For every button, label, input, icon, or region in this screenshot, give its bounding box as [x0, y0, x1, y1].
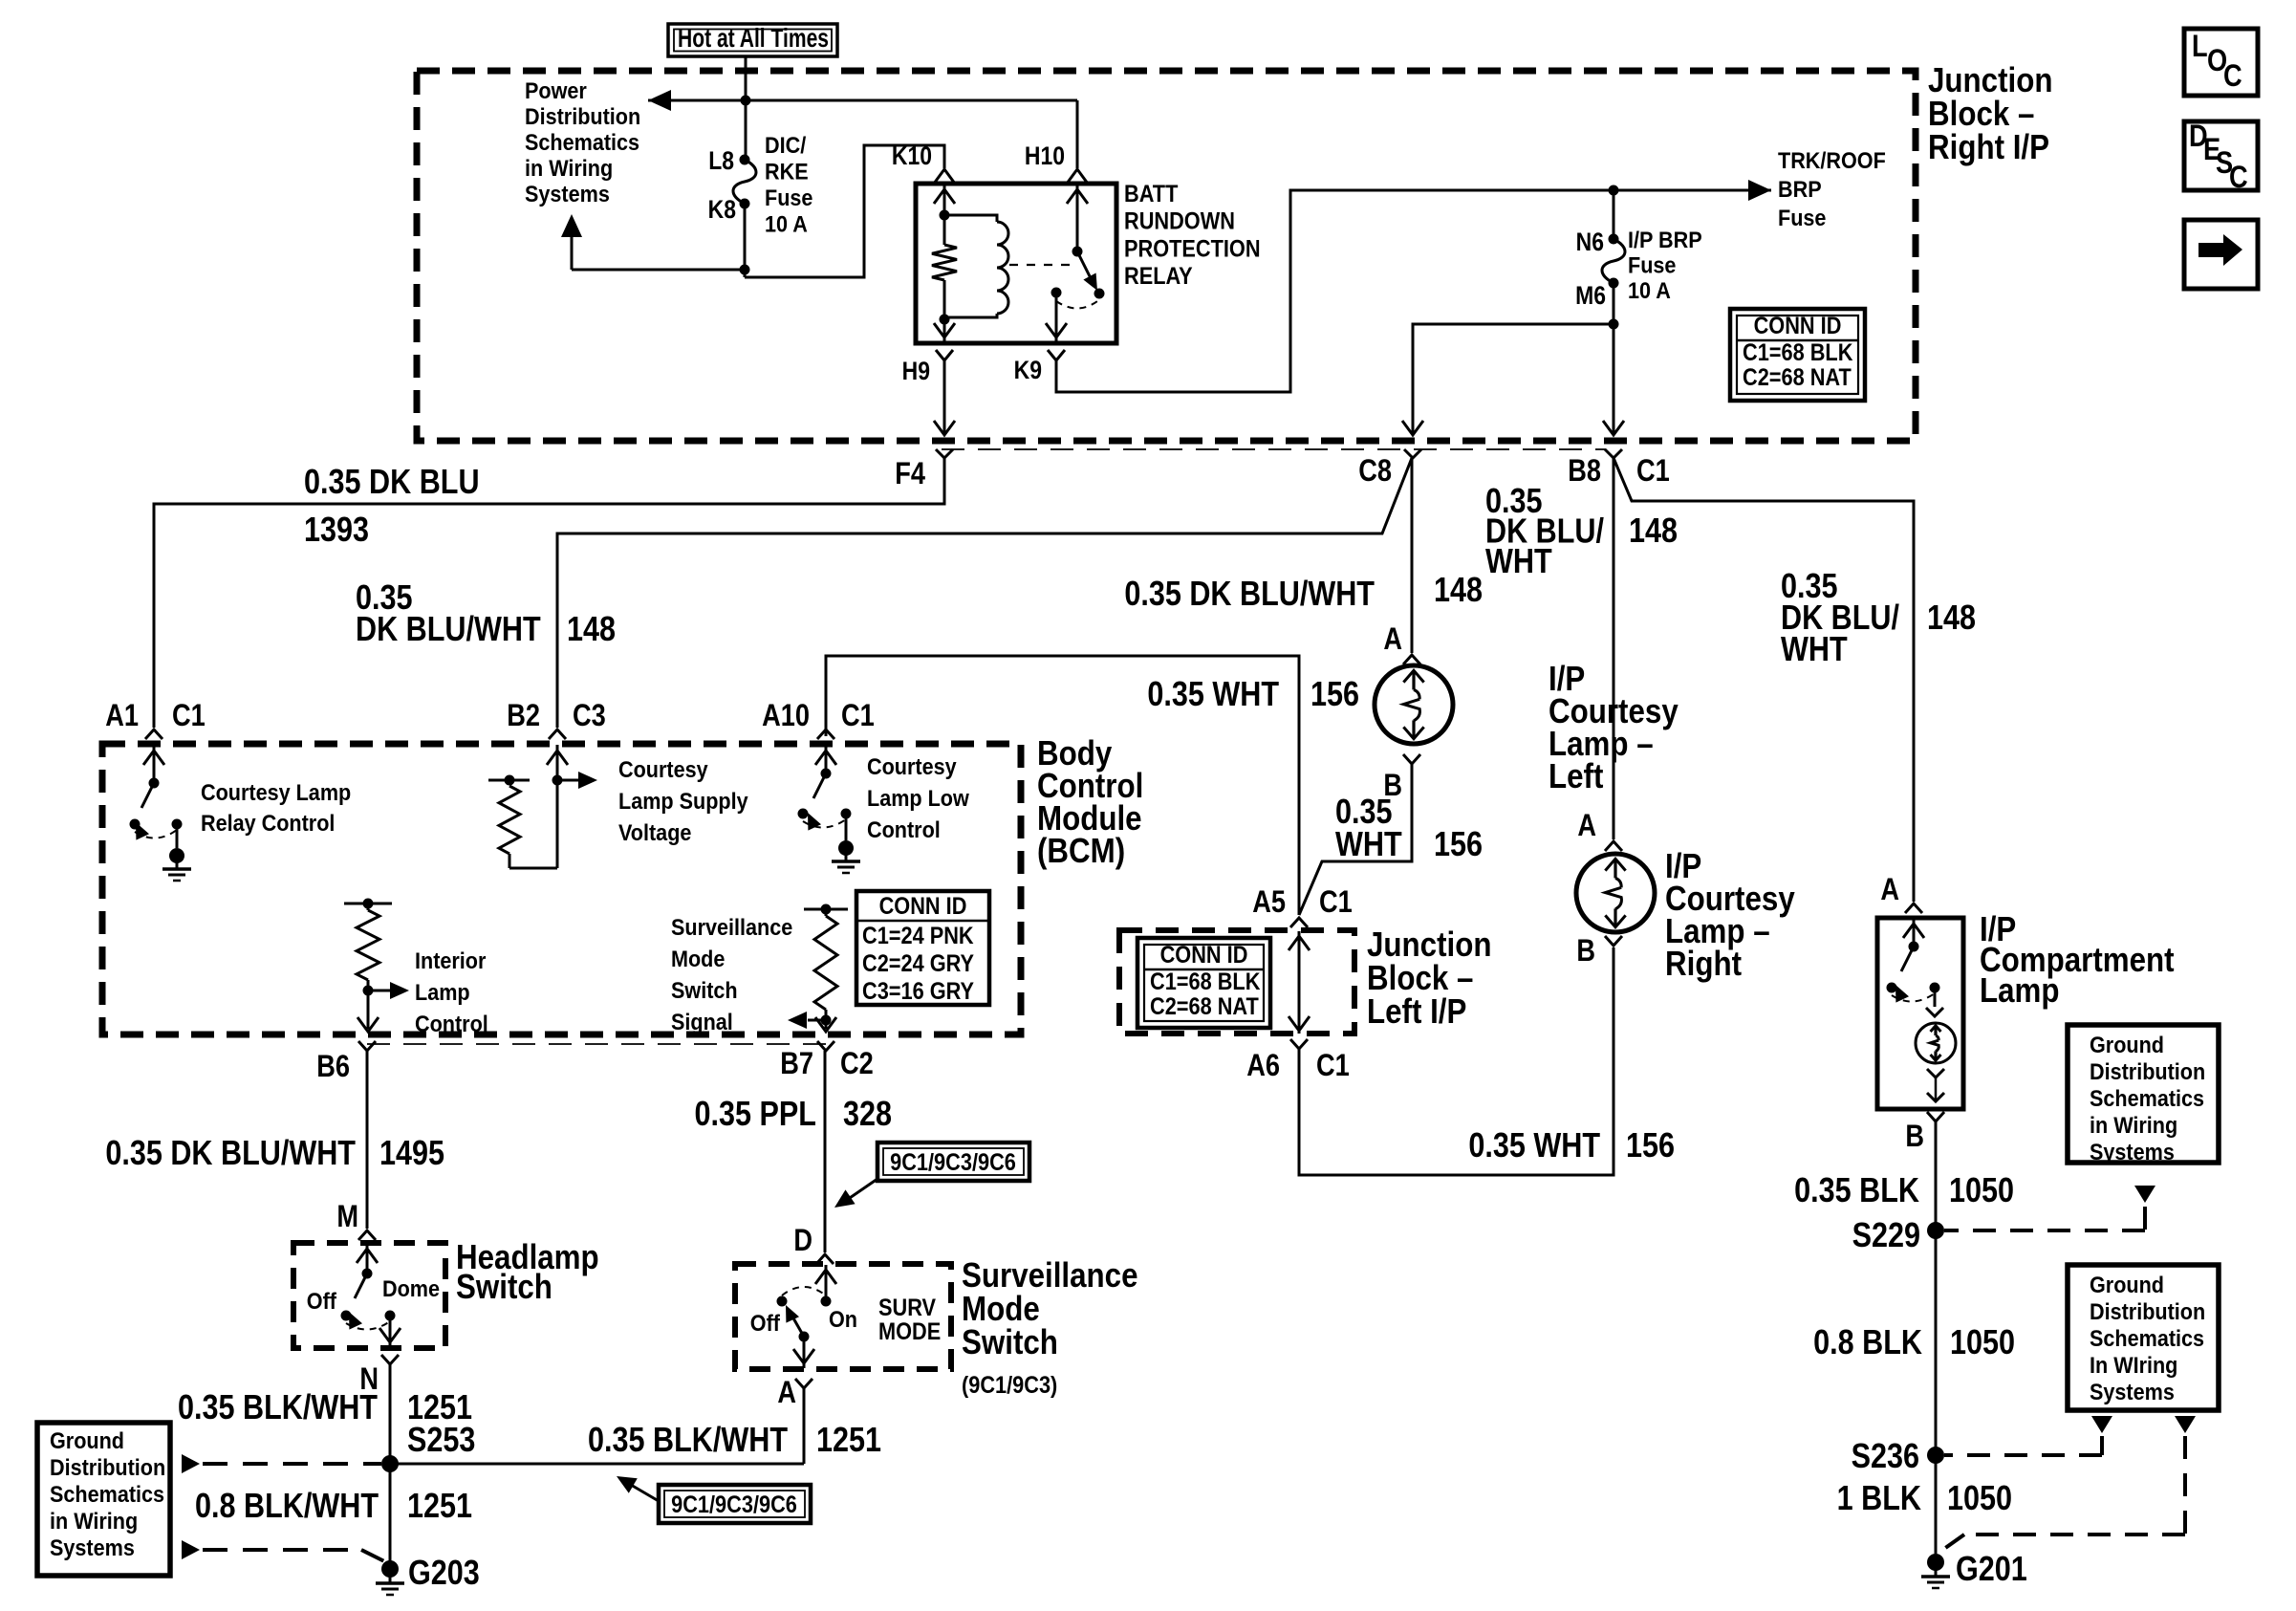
node junction dot hot bus	[741, 96, 751, 106]
pin K10	[892, 142, 932, 170]
svg-text:C1=24 PNK: C1=24 PNK	[862, 923, 974, 949]
svg-text:WHT: WHT	[1781, 631, 1848, 669]
wire A6 to lamp right B 0.35 WHT 156	[1299, 947, 1614, 1175]
svg-text:CONN ID: CONN ID	[1160, 942, 1248, 969]
svg-text:B: B	[1576, 934, 1595, 969]
label On	[829, 1306, 857, 1332]
svg-text:B8: B8	[1568, 454, 1601, 489]
ground G201	[1921, 1554, 1950, 1588]
wire N to S253 0.35 BLK/WHT 1251	[389, 1364, 392, 1464]
svg-text:156: 156	[1626, 1127, 1675, 1165]
svg-text:Distribution: Distribution	[525, 103, 640, 129]
svg-text:0.35 BLK/WHT: 0.35 BLK/WHT	[178, 1389, 379, 1427]
label 0.35 DK BLU/WHT single	[1124, 576, 1375, 614]
thin dashed connector boundary BCM	[367, 1043, 826, 1045]
connector M chevron	[358, 1230, 376, 1240]
pin A10	[762, 699, 810, 733]
label 148 at B8	[1629, 512, 1678, 551]
label 0.35 DK BLU/WHT stacked	[356, 579, 541, 649]
label Off headlamp	[307, 1288, 337, 1314]
svg-text:Left I/P: Left I/P	[1367, 992, 1466, 1032]
relay switch arm	[1077, 251, 1105, 299]
arrow courtesy lamp supply	[557, 772, 597, 789]
lamp right name	[1665, 847, 1795, 984]
svg-text:1050: 1050	[1950, 1324, 2015, 1362]
svg-text:Systems: Systems	[2090, 1379, 2175, 1404]
svg-text:0.8 BLK/WHT: 0.8 BLK/WHT	[195, 1488, 379, 1526]
callout 9C1/9C3/9C6 upper	[877, 1143, 1029, 1181]
svg-text:Switch: Switch	[671, 977, 738, 1003]
pin M6	[1575, 281, 1606, 310]
node Hot at All Times	[668, 23, 837, 56]
connector A5 chevron	[1290, 918, 1308, 927]
ground distribution text right upper	[2090, 1032, 2205, 1165]
pin C1 bcm a1	[172, 699, 206, 733]
svg-text:C1=68 BLK: C1=68 BLK	[1743, 339, 1852, 366]
svg-text:148: 148	[1927, 599, 1976, 638]
label S229	[1852, 1217, 1920, 1255]
wire B7 to D 0.35 PPL 328	[824, 1051, 827, 1252]
wire B compartment to S229 0.35 BLK 1050	[1935, 1121, 1938, 1230]
fuse I/P BRP 10 A	[1602, 234, 1625, 289]
wire K8 branch to power distribution	[572, 237, 745, 270]
conn id table junction block right	[1730, 309, 1865, 401]
svg-text:RUNDOWN: RUNDOWN	[1124, 207, 1235, 234]
wire surveillance to B7 arrow	[815, 1017, 836, 1032]
surveillance mode switch name	[962, 1256, 1138, 1398]
connector A1 chevron	[145, 729, 162, 739]
svg-text:BATT: BATT	[1124, 181, 1179, 207]
svg-text:Ground: Ground	[2090, 1032, 2164, 1057]
svg-text:148: 148	[1629, 512, 1678, 551]
arrow up to power distribution	[561, 214, 582, 237]
pin B8	[1568, 454, 1601, 489]
pin B lamp left	[1383, 769, 1402, 803]
connector A6 chevron	[1290, 1039, 1308, 1049]
svg-text:Surveillance: Surveillance	[671, 914, 792, 940]
ground distribution text left	[50, 1427, 165, 1560]
wire C8 down to lamp left A	[1411, 458, 1414, 653]
wire interior lamp to B6 arrow	[357, 1017, 379, 1032]
svg-text:1393: 1393	[304, 512, 369, 550]
pin A lamp right	[1577, 809, 1596, 843]
label Off surveillance	[750, 1310, 781, 1336]
connector F4 chevron	[936, 449, 953, 458]
pin A1	[105, 699, 139, 733]
relay batt rundown protection box	[916, 184, 1116, 343]
pin B6	[316, 1050, 350, 1084]
svg-text:in Wiring: in Wiring	[2090, 1112, 2177, 1138]
connector N chevron	[381, 1355, 399, 1364]
svg-text:I/P BRP: I/P BRP	[1628, 227, 1702, 252]
svg-text:BRP: BRP	[1778, 176, 1822, 202]
wire tap down to fuse N6	[1613, 190, 1615, 239]
svg-text:A: A	[777, 1376, 796, 1410]
label 0.8 BLK 1050	[1813, 1324, 2015, 1362]
svg-text:Lamp: Lamp	[415, 979, 470, 1005]
dashed link G201 to ground box lower right right arrow	[1941, 1416, 2196, 1551]
svg-text:Mode: Mode	[671, 946, 725, 971]
pin A compartment lamp	[1880, 873, 1899, 907]
svg-text:Ground: Ground	[50, 1427, 124, 1453]
node splice S236	[1927, 1447, 1944, 1464]
svg-text:10 A: 10 A	[765, 210, 808, 236]
connector H9 chevron	[936, 350, 953, 360]
wire H9 to F4	[934, 360, 955, 435]
svg-text:in Wiring: in Wiring	[525, 155, 613, 181]
svg-text:Fuse: Fuse	[765, 185, 812, 210]
inductor relay coil	[944, 215, 1008, 317]
label 148	[567, 611, 616, 649]
node relay coil bottom dot	[940, 315, 950, 325]
pin B2	[507, 699, 540, 733]
svg-text:S236: S236	[1852, 1438, 1919, 1476]
relay H10 leg with arrow	[1067, 184, 1088, 251]
svg-text:F4: F4	[895, 457, 925, 491]
svg-text:C1: C1	[1636, 454, 1670, 489]
pin H10	[1025, 142, 1065, 170]
wire K8 to relay K10	[745, 145, 944, 277]
fuse DIC/RKE 10 A	[733, 155, 756, 209]
svg-text:0.35 BLK/WHT: 0.35 BLK/WHT	[588, 1422, 789, 1460]
svg-text:D: D	[793, 1224, 812, 1258]
callout 9C1/9C3/9C6 lower	[659, 1485, 811, 1523]
svg-text:Left: Left	[1549, 757, 1603, 796]
conn id table BCM	[856, 891, 989, 1005]
node relay switch pivot	[1072, 247, 1083, 257]
svg-text:Systems: Systems	[2090, 1139, 2175, 1165]
label 1 BLK 1050	[1837, 1480, 2012, 1518]
pin N	[359, 1362, 379, 1397]
ip compartment lamp name	[1980, 910, 2175, 1011]
relay H9 leg with arrow	[934, 319, 955, 343]
label 0.35 DK BLU/WHT 1495	[105, 1135, 444, 1173]
connector A surveillance chevron	[795, 1379, 812, 1388]
ground distribution schematics box right lower	[2068, 1265, 2219, 1410]
label 0.35 PPL 328	[694, 1096, 892, 1134]
label 1393	[304, 512, 369, 550]
svg-text:K10: K10	[892, 142, 932, 170]
relay actuation dashed link	[1009, 264, 1072, 266]
svg-text:Schematics: Schematics	[525, 129, 639, 155]
courtesy lamp supply voltage note	[618, 756, 748, 845]
svg-text:B7: B7	[780, 1047, 813, 1081]
label S253	[407, 1422, 475, 1460]
svg-text:9C1/9C3/9C6: 9C1/9C3/9C6	[671, 1491, 797, 1518]
pin A lamp left	[1383, 622, 1402, 657]
svg-text:C2=68 NAT: C2=68 NAT	[1743, 364, 1852, 391]
svg-text:0.35 WHT: 0.35 WHT	[1468, 1127, 1600, 1165]
wire surveillance A to S253	[803, 1388, 806, 1464]
TRK/ROOF BRP fuse note	[1778, 147, 1886, 230]
arrow surveillance mode switch signal	[788, 1012, 826, 1029]
relay K9 leg with arrow	[1046, 293, 1067, 343]
thin dashed connector boundary right	[942, 448, 1606, 450]
switch surveillance mode	[777, 1265, 837, 1368]
pin C8	[1358, 454, 1392, 489]
svg-text:0.35 DK BLU: 0.35 DK BLU	[304, 464, 480, 502]
wire lamp left B to A5	[1299, 764, 1412, 915]
pin H9	[902, 357, 930, 385]
svg-text:H10: H10	[1025, 142, 1065, 170]
svg-text:Fuse: Fuse	[1778, 205, 1826, 230]
connector B lamp right chevron	[1605, 936, 1622, 946]
surveillance mode switch signal note	[671, 914, 792, 1034]
connector B7 chevron	[817, 1041, 834, 1051]
lamp I/P courtesy left	[1375, 665, 1453, 744]
junction block left name	[1367, 925, 1491, 1032]
svg-text:148: 148	[1434, 572, 1483, 610]
ground distribution text right lower	[2090, 1272, 2205, 1404]
wire S229 to S236 0.8 BLK 1050	[1935, 1230, 1938, 1455]
surveillance mode switch box	[735, 1264, 951, 1369]
svg-text:WHT: WHT	[1335, 826, 1402, 864]
label 0.35 BLK 1050	[1794, 1172, 2014, 1210]
switch headlamp	[341, 1244, 401, 1347]
arrow interior lamp control	[368, 982, 409, 999]
svg-text:Signal: Signal	[671, 1009, 733, 1034]
dashed link S229 to ground box upper right	[1944, 1186, 2155, 1230]
label 0.35 WHT a	[1147, 676, 1279, 714]
callout arrow upper	[834, 1179, 877, 1208]
compartment lamp exit arrows	[1927, 1069, 1944, 1101]
pin C3	[573, 699, 606, 733]
label G201	[1956, 1551, 2027, 1589]
svg-text:In WIring: In WIring	[2090, 1352, 2177, 1378]
connector K10 chevron	[934, 169, 955, 184]
svg-text:Schematics: Schematics	[50, 1481, 164, 1507]
svg-text:L: L	[2192, 30, 2208, 64]
svg-text:DIC/: DIC/	[765, 132, 807, 158]
pin A5	[1252, 885, 1286, 920]
switch courtesy lamp relay control	[130, 745, 183, 848]
svg-text:C1: C1	[172, 699, 206, 733]
svg-text:C2=68 NAT: C2=68 NAT	[1150, 993, 1259, 1020]
svg-text:G201: G201	[1956, 1551, 2027, 1589]
label 0.35 WHT b	[1468, 1127, 1600, 1165]
wire B6 to M 0.35 DK BLU/WHT 1495	[366, 1051, 369, 1229]
svg-text:C1: C1	[1316, 1049, 1350, 1083]
svg-text:Courtesy: Courtesy	[867, 753, 957, 779]
svg-text:0.35 WHT: 0.35 WHT	[1147, 676, 1279, 714]
label 0.35 BLK/WHT 1251 left	[178, 1389, 472, 1427]
svg-text:0.35 DK BLU/WHT: 0.35 DK BLU/WHT	[1124, 576, 1375, 614]
wire B8 down to lamp right A	[1613, 458, 1615, 839]
svg-text:A: A	[1383, 622, 1402, 657]
fuse I/P BRP value label	[1628, 227, 1702, 303]
svg-text:Courtesy: Courtesy	[618, 756, 708, 782]
arrow to TRK/ROOF BRP fuse	[1748, 180, 1771, 201]
node dot IP BRP tap	[1609, 185, 1619, 196]
svg-text:C: C	[2223, 59, 2242, 94]
svg-text:M: M	[336, 1200, 358, 1234]
svg-text:L8: L8	[708, 146, 734, 175]
svg-text:On: On	[829, 1306, 857, 1332]
svg-text:in Wiring: in Wiring	[50, 1508, 138, 1534]
svg-text:328: 328	[843, 1096, 892, 1134]
svg-text:M6: M6	[1575, 281, 1606, 310]
pin K9	[1014, 356, 1042, 384]
pin L8	[708, 146, 734, 175]
wire S253 to G203 0.8 BLK/WHT 1251	[389, 1464, 392, 1561]
connector A lamp left chevron	[1403, 655, 1420, 664]
pin C1 a5	[1319, 885, 1353, 920]
arrow to power distribution left	[648, 90, 671, 111]
resistor interior lamp control	[344, 899, 392, 1030]
svg-text:Control: Control	[867, 816, 941, 842]
svg-text:TRK/ROOF: TRK/ROOF	[1778, 147, 1886, 173]
wire S236 to G201 1 BLK 1050	[1935, 1455, 1938, 1554]
relay K10 leg with arrow	[934, 184, 955, 215]
pin N6	[1576, 228, 1604, 256]
label 148 b	[1434, 572, 1483, 610]
node relay coil top dot	[940, 210, 950, 221]
label 148 c	[1927, 599, 1976, 638]
next-page arrow box	[2184, 220, 2258, 289]
label 156 left	[1434, 826, 1483, 864]
svg-text:10 A: 10 A	[1628, 277, 1671, 303]
svg-text:Dome: Dome	[382, 1275, 440, 1301]
svg-text:MODE: MODE	[878, 1318, 941, 1345]
wire S253 to surveillance A 0.35 BLK/WHT 1251	[390, 1463, 804, 1466]
svg-text:A1: A1	[105, 699, 139, 733]
wire F4 to BCM A1 0.35 DK BLU 1393	[154, 458, 944, 728]
svg-text:CONN ID: CONN ID	[1754, 313, 1842, 339]
svg-text:Lamp Low: Lamp Low	[867, 785, 969, 811]
svg-text:156: 156	[1310, 676, 1359, 714]
connector B8 chevron	[1605, 449, 1622, 458]
svg-text:Systems: Systems	[50, 1535, 135, 1560]
svg-text:156: 156	[1434, 826, 1483, 864]
svg-text:Lamp Supply: Lamp Supply	[618, 788, 748, 814]
svg-text:1 BLK: 1 BLK	[1837, 1480, 1921, 1518]
wire BCM A10 to junction left A5 0.35 WHT 156	[826, 656, 1299, 915]
svg-text:1495: 1495	[379, 1135, 444, 1173]
connector B lamp left chevron	[1403, 754, 1420, 764]
svg-text:Control: Control	[415, 1011, 488, 1036]
wire through junction block left	[1289, 931, 1310, 1034]
pin M	[336, 1200, 358, 1234]
lamp compartment bulb	[1916, 1023, 1956, 1063]
pin A6	[1246, 1049, 1280, 1083]
headlamp switch name	[456, 1238, 599, 1307]
pin K8	[708, 195, 736, 224]
ground bcm a10	[832, 840, 860, 873]
label 0.35 DK BLU/ WHT stacked right	[1781, 568, 1899, 669]
svg-text:G203: G203	[408, 1555, 480, 1593]
pin B compartment lamp	[1905, 1120, 1924, 1154]
label G203	[408, 1555, 480, 1593]
svg-text:Interior: Interior	[415, 947, 487, 973]
LOC nav box	[2184, 29, 2258, 96]
svg-text:S253: S253	[407, 1422, 475, 1460]
node splice S229	[1927, 1222, 1944, 1239]
svg-text:B: B	[1905, 1120, 1924, 1154]
svg-text:0.8 BLK: 0.8 BLK	[1813, 1324, 1922, 1362]
wire K9 to IP BRP fuse and TRK/ROOF	[1056, 190, 1771, 392]
svg-text:RKE: RKE	[765, 158, 809, 184]
pin C1 a6	[1316, 1049, 1350, 1083]
power distribution schematics note	[525, 77, 640, 207]
connector A lamp right chevron	[1605, 841, 1622, 851]
svg-text:SURV: SURV	[878, 1295, 936, 1321]
pin B7	[780, 1047, 813, 1081]
label 156 a	[1310, 676, 1359, 714]
resistor surveillance mode switch signal	[804, 904, 848, 1030]
svg-text:Switch: Switch	[962, 1323, 1058, 1362]
svg-text:Off: Off	[307, 1288, 337, 1314]
svg-text:A: A	[1880, 873, 1899, 907]
svg-text:Distribution: Distribution	[2090, 1058, 2205, 1084]
resistor courtesy lamp supply	[488, 745, 568, 868]
svg-text:S229: S229	[1852, 1217, 1920, 1255]
svg-text:B6: B6	[316, 1050, 350, 1084]
svg-text:C2: C2	[840, 1047, 874, 1081]
svg-text:K9: K9	[1014, 356, 1042, 384]
connector A10 chevron	[817, 729, 834, 739]
ground distribution schematics box left	[37, 1423, 170, 1576]
relay switch dashed arc	[1056, 301, 1097, 309]
node dot K8 branch	[740, 265, 750, 275]
dashed link G203 to ground box lower	[182, 1540, 384, 1561]
relay switch contact	[1051, 288, 1062, 298]
ground distribution schematics box right upper	[2068, 1025, 2219, 1163]
pin B lamp right	[1576, 934, 1595, 969]
label S236	[1852, 1438, 1919, 1476]
svg-text:PROTECTION: PROTECTION	[1124, 235, 1261, 262]
conn id table junction block left	[1137, 938, 1270, 1028]
svg-text:148: 148	[567, 611, 616, 649]
wire hot bus down	[745, 56, 747, 100]
wire M6 down to B8	[1603, 283, 1624, 435]
svg-text:Distribution: Distribution	[2090, 1298, 2205, 1324]
callout arrow lower	[617, 1476, 659, 1501]
svg-text:RELAY: RELAY	[1124, 263, 1193, 290]
svg-text:Right: Right	[1665, 945, 1742, 984]
courtesy lamp low control note	[867, 753, 969, 842]
label 0.35 BLK/WHT 1251 right	[588, 1422, 881, 1460]
svg-text:Right I/P: Right I/P	[1928, 128, 2049, 167]
svg-text:Systems: Systems	[525, 181, 610, 207]
pin C2	[840, 1047, 874, 1081]
ground bcm a1	[162, 848, 191, 881]
interior lamp control note	[415, 947, 488, 1036]
svg-text:Courtesy Lamp: Courtesy Lamp	[201, 779, 351, 805]
svg-text:Fuse: Fuse	[1628, 251, 1676, 277]
svg-text:Power: Power	[525, 77, 587, 103]
node splice S253	[381, 1455, 399, 1472]
wire M6 branch to C8	[1402, 324, 1614, 435]
svg-text:A10: A10	[762, 699, 810, 733]
svg-text:1050: 1050	[1947, 1480, 2012, 1518]
svg-text:1050: 1050	[1949, 1172, 2014, 1210]
connector B compartment chevron	[1927, 1112, 1944, 1121]
ground G203	[376, 1560, 404, 1595]
svg-text:B2: B2	[507, 699, 540, 733]
headlamp switch box	[293, 1243, 445, 1348]
label 0.35 WHT stacked	[1335, 794, 1402, 864]
connector H10 chevron	[1067, 169, 1088, 184]
dashed link S253 to ground box upper	[182, 1454, 381, 1473]
lamp I/P courtesy right	[1576, 854, 1655, 932]
svg-text:Relay Control: Relay Control	[201, 810, 335, 836]
svg-text:WHT: WHT	[1485, 543, 1552, 581]
svg-text:K8: K8	[708, 195, 736, 224]
junction block left box	[1119, 930, 1354, 1034]
svg-text:C1=68 BLK: C1=68 BLK	[1150, 969, 1260, 995]
svg-text:A5: A5	[1252, 885, 1286, 920]
svg-text:C: C	[2229, 161, 2248, 195]
